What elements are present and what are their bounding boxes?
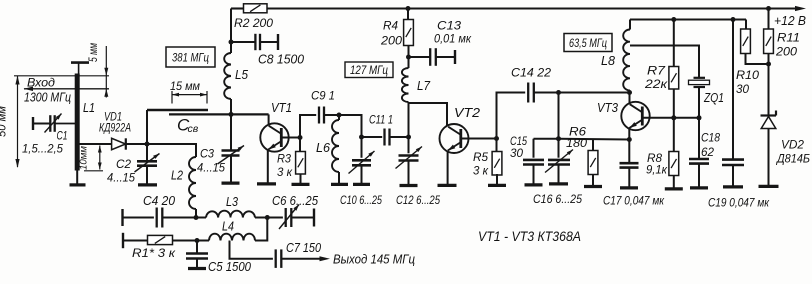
resistor R1* xyxy=(148,235,173,244)
wire L1 tap to VD1 xyxy=(79,143,112,145)
resistor R8 xyxy=(673,118,675,152)
node E (L5/Csv/VT1 junction) xyxy=(229,112,234,117)
resistor R4 xyxy=(407,9,409,20)
svg-text:R7: R7 xyxy=(647,64,667,78)
wire +12V supply bus xyxy=(231,7,244,9)
wire VT2 collector to L7 line xyxy=(409,103,448,126)
dimension 10 mm xyxy=(99,146,101,170)
capacitor C2 (trimmer) xyxy=(137,160,157,163)
svg-text:4...15: 4...15 xyxy=(107,171,135,185)
capacitor C1 (trimmer) xyxy=(49,115,51,132)
svg-text:C9 1: C9 1 xyxy=(311,89,335,103)
capacitor C8 xyxy=(254,34,256,50)
node A (VD1/C2/Csv junction) xyxy=(145,142,150,147)
node C (L3/C6/L4 junction) xyxy=(265,215,270,220)
svg-text:C1: C1 xyxy=(57,131,68,143)
svg-text:4...15: 4...15 xyxy=(197,161,225,175)
wire regulated line to L8 xyxy=(629,20,631,30)
svg-text:C11 1: C11 1 xyxy=(369,113,393,127)
resistor R2 (in series with bus) xyxy=(244,4,268,13)
svg-text:1300 МГц: 1300 МГц xyxy=(24,90,71,105)
capacitor C13 xyxy=(429,48,431,66)
svg-text:св: св xyxy=(188,123,199,135)
ground (antenna) xyxy=(70,183,86,186)
capacitor C11 xyxy=(383,129,385,146)
wire VT1 base to node F xyxy=(282,137,300,139)
node G (C9/L6 junction) xyxy=(337,113,342,118)
wire C8 node to L5 xyxy=(230,42,232,53)
node Q (ZQ1 on base line) xyxy=(697,115,702,120)
capacitor C9 xyxy=(318,107,320,124)
svg-text:R11: R11 xyxy=(777,31,800,45)
svg-text:C16 6...25: C16 6...25 xyxy=(533,192,582,206)
wire node A up to Csv plate xyxy=(146,110,148,144)
resistor R7 xyxy=(673,20,675,67)
wire VT2 emitter to ground xyxy=(447,151,449,184)
node R7 top xyxy=(671,17,676,22)
resistor R10 xyxy=(745,20,747,30)
dimension 5 mm xyxy=(105,46,107,98)
ground (C3) xyxy=(222,182,240,185)
wire bus corner down to C8 node xyxy=(230,9,232,43)
wire C15 to node M xyxy=(534,138,559,140)
svg-text:L4: L4 xyxy=(222,220,234,234)
wire node D to L4 xyxy=(197,240,209,242)
wire node A down to C2 xyxy=(146,144,148,161)
resistor R3 xyxy=(299,138,301,152)
wire C7 to output arrow xyxy=(281,258,320,260)
svg-text:200: 200 xyxy=(775,45,797,59)
svg-text:C14 22: C14 22 xyxy=(511,66,551,80)
regulated supply line xyxy=(630,19,746,21)
input feed line with arrow xyxy=(24,88,109,90)
node C19 on regulated line xyxy=(731,17,736,22)
wire node K up to C14 xyxy=(497,93,526,139)
frequency callout 381 MHz xyxy=(166,47,215,67)
transistor VT3 xyxy=(621,102,649,130)
terminal and wire to C4 xyxy=(121,209,123,226)
svg-text:62: 62 xyxy=(701,145,714,159)
svg-text:1,5...2,5: 1,5...2,5 xyxy=(22,144,64,156)
wire node H to C11 xyxy=(362,136,383,138)
svg-text:15 мм: 15 мм xyxy=(170,81,200,93)
svg-text:C5 1500: C5 1500 xyxy=(208,260,251,274)
svg-text:C13: C13 xyxy=(437,19,461,33)
wire C11 to node I xyxy=(390,136,409,138)
svg-text:R10: R10 xyxy=(736,68,759,82)
wire C6 to terminal xyxy=(291,217,314,219)
wire C1 terminal to plates xyxy=(32,117,34,130)
inductor L7 xyxy=(402,68,409,102)
svg-text:30: 30 xyxy=(510,146,523,160)
svg-text:VT2: VT2 xyxy=(454,106,480,120)
svg-text:L7: L7 xyxy=(417,79,431,93)
node R (R10/R11/VD2 junction) xyxy=(766,62,771,67)
wire node R to VD2 xyxy=(768,64,770,115)
transistor VT1 xyxy=(260,123,288,151)
capacitor C5 xyxy=(186,252,208,255)
node C8 junction xyxy=(229,40,234,45)
svg-text:10мм: 10мм xyxy=(79,146,90,170)
svg-text:0,01 мк: 0,01 мк xyxy=(434,32,472,46)
resistor R11 xyxy=(768,9,770,30)
svg-text:200: 200 xyxy=(380,34,402,48)
svg-text:C12 6...25: C12 6...25 xyxy=(396,193,440,207)
wire C14 to node L xyxy=(534,92,559,94)
svg-text:VT3: VT3 xyxy=(597,101,618,115)
capacitor C15 xyxy=(533,139,535,158)
svg-text:3 к: 3 к xyxy=(277,165,293,179)
frequency callout 127 MHz xyxy=(345,62,393,78)
svg-text:22к: 22к xyxy=(644,77,669,91)
svg-text:63,5 МГц: 63,5 МГц xyxy=(569,38,607,50)
svg-text:Д814Б: Д814Б xyxy=(775,152,810,166)
wire L8 tap to ZQ1 xyxy=(630,46,699,78)
dimension 50 mm xyxy=(17,76,19,168)
wire L7 to node I xyxy=(408,102,410,137)
wire node J to L7 xyxy=(408,57,410,68)
wire L5 to node E xyxy=(230,99,232,114)
svg-text:ZQ1: ZQ1 xyxy=(703,91,724,105)
svg-text:Вход: Вход xyxy=(27,76,55,90)
wire L4 to node C riser xyxy=(255,218,267,241)
ground (C5) xyxy=(188,267,206,270)
wire node N into VT3 xyxy=(629,93,631,104)
svg-text:VT1 - VT3 КТ368А: VT1 - VT3 КТ368А xyxy=(478,229,581,244)
wire L4 tap down to C7 xyxy=(230,241,273,259)
wire L2 to node B xyxy=(195,209,197,218)
svg-text:381 МГц: 381 МГц xyxy=(172,51,209,65)
wire C9 to node G xyxy=(324,114,339,116)
wire to C8 xyxy=(231,41,255,43)
svg-text:R2 200: R2 200 xyxy=(234,16,273,30)
ground (VD2) xyxy=(759,185,779,188)
wire node L down to node M xyxy=(558,93,560,139)
capacitor C3 (trimmer) xyxy=(222,149,240,152)
svg-text:C3: C3 xyxy=(200,147,214,161)
svg-text:L6: L6 xyxy=(316,141,330,155)
wire VT3 base line xyxy=(643,117,699,119)
antenna tuning disc (top cap) xyxy=(71,61,89,64)
frequency callout 63.5 MHz xyxy=(564,34,612,52)
wire node F up and to C9 xyxy=(300,115,316,138)
wire node A to L2 xyxy=(147,144,196,157)
ground (R3) xyxy=(292,183,310,186)
wire ZQ1 to node Q xyxy=(698,87,700,118)
svg-text:L2: L2 xyxy=(171,169,183,183)
zener diode VD2 xyxy=(761,114,777,116)
ground (C10) xyxy=(353,183,370,186)
capacitor C16 (trimmer) xyxy=(558,139,560,158)
wire L1 to ground xyxy=(76,171,78,185)
svg-text:50 мм: 50 мм xyxy=(0,106,9,137)
resistor R5 xyxy=(496,139,498,152)
svg-text:L5: L5 xyxy=(235,68,248,82)
inductor L4 xyxy=(209,234,255,241)
node K (VT2 base/R5/C14) xyxy=(494,136,499,141)
crystal ZQ1 xyxy=(694,77,706,79)
ground (C17) xyxy=(620,186,638,189)
capacitor C10 (trimmer) xyxy=(352,159,371,162)
capacitor C4 xyxy=(156,208,158,228)
wire VD1 to node A xyxy=(126,143,147,145)
capacitor C14 xyxy=(527,83,529,103)
capacitor C19 xyxy=(732,20,734,160)
ground (C2) xyxy=(138,183,157,186)
wire VT1 emitter to ground xyxy=(267,150,269,183)
svg-text:127 МГц: 127 МГц xyxy=(350,65,388,77)
node F (VT1 base/R3/C9) xyxy=(298,135,303,140)
wire L3 to node C xyxy=(255,217,267,219)
svg-text:5 мм: 5 мм xyxy=(88,43,100,62)
wire node M to VT3 emitter node xyxy=(559,138,630,141)
wire node J to C13 xyxy=(409,56,431,58)
wire L8 to VT3 collector xyxy=(629,91,631,93)
wire node B to L3 xyxy=(196,217,206,219)
dimension extension line top xyxy=(14,75,109,77)
node P (R7/R8 on base line) xyxy=(671,115,676,120)
ground (VT2 emitter) xyxy=(438,184,457,187)
wire C8 to terminal xyxy=(260,41,278,43)
capacitor C6 (trimmer) xyxy=(285,208,287,227)
svg-text:Выход 145 МГц: Выход 145 МГц xyxy=(333,252,415,267)
svg-text:VT1: VT1 xyxy=(271,101,292,115)
wire VT3 emitter to node O xyxy=(628,128,630,140)
wire Csv line down to VT1 collector xyxy=(268,114,270,125)
ground (L6) xyxy=(331,183,348,186)
wire node D to C5 xyxy=(196,241,198,254)
node D (R1/L4/C5 junction) xyxy=(195,238,200,243)
wire VT2 base to node K xyxy=(462,138,497,140)
svg-text:C7 150: C7 150 xyxy=(286,241,321,255)
capacitor C7 xyxy=(275,249,277,268)
node O (VT3 emitter/R6/C17) xyxy=(627,137,632,142)
ground (C15) xyxy=(525,183,543,186)
svg-text:C10 6...25: C10 6...25 xyxy=(340,193,382,207)
wire C13 to terminal xyxy=(436,56,455,58)
ground (R8) xyxy=(665,187,683,190)
inductor L3 xyxy=(206,211,255,218)
svg-text:L8: L8 xyxy=(601,54,615,68)
svg-text:R3: R3 xyxy=(277,152,291,166)
svg-text:3 к: 3 к xyxy=(473,164,489,178)
node L (C14/C16/VT3 coll line) xyxy=(556,90,561,95)
ground (R6) xyxy=(584,185,602,188)
coupling capacitor Csv upper plate xyxy=(147,109,208,112)
svg-text:C8 1500: C8 1500 xyxy=(258,53,304,67)
inductor L8 xyxy=(623,30,630,91)
node R4 on bus xyxy=(406,6,411,11)
ground (C12) xyxy=(400,184,418,187)
terminal and wire to R1 xyxy=(122,233,124,248)
svg-text:R1* 3 к: R1* 3 к xyxy=(132,246,176,260)
svg-text:L3: L3 xyxy=(226,195,238,209)
node B (L2/C4/L3 junction) xyxy=(194,215,199,220)
stripline L1 (thick bar) xyxy=(75,74,80,171)
svg-text:КД922А: КД922А xyxy=(99,121,131,135)
svg-text:VD2: VD2 xyxy=(781,138,804,152)
wire node G to C10 riser xyxy=(339,115,362,158)
inductor L6 xyxy=(338,115,340,120)
svg-text:180: 180 xyxy=(566,136,587,150)
capacitor C12 (trimmer) xyxy=(408,137,410,153)
inductor L2 xyxy=(189,157,196,209)
svg-text:R4: R4 xyxy=(383,19,398,33)
node R11 on bus xyxy=(766,6,771,11)
node I (L7/C11/C12 junction) xyxy=(406,135,411,140)
svg-text:C2: C2 xyxy=(116,157,131,171)
dimension 15 mm xyxy=(171,91,173,104)
node N (L8/C14 line/VT3 collector) xyxy=(627,90,632,95)
node J (R4/C13/L7) xyxy=(406,55,411,60)
capacitor C17 xyxy=(628,140,630,164)
node H (C11 tap on C10 riser) xyxy=(359,135,364,140)
wire node E down to C3 xyxy=(230,114,232,150)
wire C4 to node B xyxy=(162,217,196,219)
svg-text:C6 6...25: C6 6...25 xyxy=(272,194,318,208)
svg-text:30: 30 xyxy=(736,82,749,96)
svg-text:+12 В: +12 В xyxy=(774,14,806,28)
wire R1 to node D xyxy=(173,240,198,242)
svg-text:C18: C18 xyxy=(701,131,720,145)
svg-text:C4 20: C4 20 xyxy=(143,194,175,208)
ground (VT1 emitter) xyxy=(257,182,276,185)
svg-text:C19 0,047 мк: C19 0,047 мк xyxy=(708,196,770,210)
ground (C18) xyxy=(690,186,708,189)
inductor L5 xyxy=(224,53,231,99)
diode VD1 xyxy=(112,138,126,149)
capacitor C18 xyxy=(698,118,700,159)
svg-text:R5: R5 xyxy=(473,150,488,164)
svg-text:L1: L1 xyxy=(83,101,95,115)
node M (C15/C16/R6 junction) xyxy=(556,136,561,141)
wire VD2 to ground xyxy=(768,129,770,186)
coupling capacitor Csv lower plate / wire to VT1 xyxy=(169,113,269,115)
ground (C16) xyxy=(549,182,568,185)
ground (C19) xyxy=(723,185,743,188)
svg-text:9,1к: 9,1к xyxy=(646,163,668,177)
wire node L to VT3 collector node xyxy=(559,92,630,94)
wire node C to C6 xyxy=(267,217,283,219)
ground (R5) xyxy=(488,184,506,187)
resistor R6 xyxy=(592,139,594,151)
transistor VT2 xyxy=(440,124,469,153)
svg-text:C17 0,047 мк: C17 0,047 мк xyxy=(603,194,665,208)
